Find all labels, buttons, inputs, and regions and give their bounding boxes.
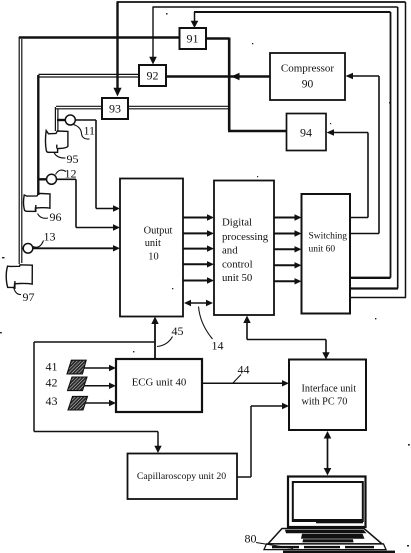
svg-text:41: 41 [46, 360, 58, 374]
svg-text:93: 93 [109, 102, 121, 116]
svg-text:43: 43 [46, 394, 58, 408]
svg-text:with PC 70: with PC 70 [302, 397, 348, 408]
svg-text:42: 42 [46, 376, 58, 390]
svg-text:ECG unit 40: ECG unit 40 [132, 377, 187, 389]
svg-text:unit 50: unit 50 [222, 272, 252, 284]
svg-text:91: 91 [187, 32, 199, 46]
svg-text:unit 60: unit 60 [309, 245, 336, 255]
svg-text:92: 92 [147, 69, 159, 83]
svg-text:11: 11 [84, 124, 96, 138]
svg-text:97: 97 [23, 290, 35, 304]
svg-text:10: 10 [148, 252, 158, 263]
svg-text:unit: unit [145, 238, 161, 249]
svg-text:94: 94 [300, 126, 312, 140]
svg-text:Output: Output [144, 226, 173, 237]
svg-text:44: 44 [238, 363, 250, 377]
svg-text:Interface unit: Interface unit [302, 384, 357, 395]
svg-text:45: 45 [172, 324, 184, 338]
svg-text:14: 14 [212, 339, 224, 353]
svg-text:Switching: Switching [309, 232, 348, 242]
svg-text:processing: processing [222, 231, 269, 243]
svg-text:Compressor: Compressor [281, 63, 335, 75]
svg-text:80: 80 [245, 532, 257, 546]
svg-text:13: 13 [44, 230, 56, 244]
svg-text:control: control [222, 259, 253, 271]
svg-text:96: 96 [50, 210, 62, 224]
svg-text:12: 12 [65, 167, 77, 181]
svg-text:90: 90 [302, 79, 314, 91]
svg-text:95: 95 [67, 152, 79, 166]
svg-text:Capillaroscopy unit 20: Capillaroscopy unit 20 [137, 471, 226, 482]
svg-text:Digital: Digital [222, 217, 252, 229]
svg-text:and: and [222, 245, 238, 257]
